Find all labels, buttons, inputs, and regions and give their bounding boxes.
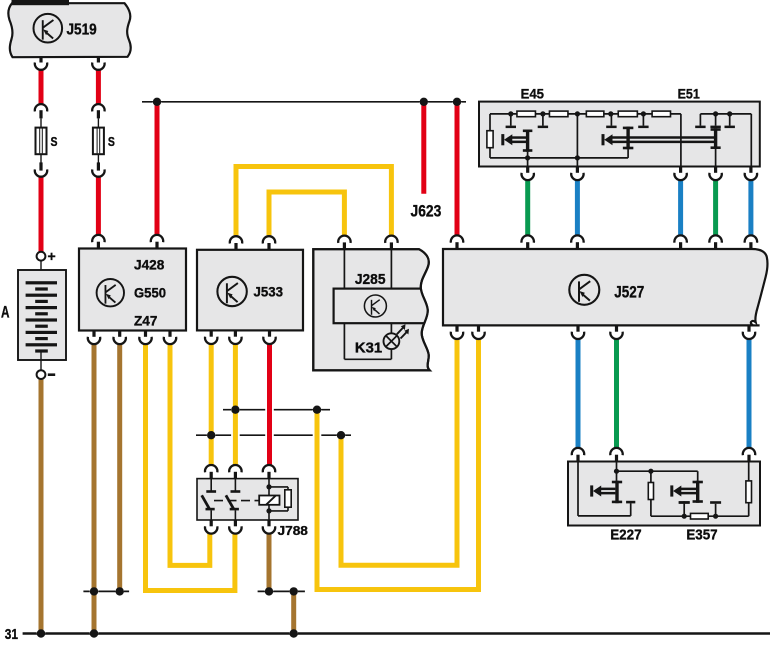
pin J285/2 — [385, 236, 397, 243]
switch E227 movable pivot — [615, 481, 618, 504]
wire yellow J533 top1 to J285 pin2 (outer loop) — [236, 167, 391, 236]
pin J788 top1 — [205, 465, 217, 472]
node E45 bus — [575, 111, 580, 116]
pin J527 top6 — [745, 235, 757, 242]
wire yellow branch row1 to J527 bot2 — [317, 339, 479, 590]
K symbol J428 — [97, 279, 124, 306]
J285 inner control-unit box — [334, 289, 430, 324]
node E45 bottom bus — [575, 155, 580, 160]
svg-text:J519: J519 — [67, 22, 98, 39]
wire E45 center drop to pin — [576, 114, 578, 167]
E227 fixed contact + wire to pin — [577, 462, 579, 516]
node rail-J527 — [453, 98, 461, 106]
resistor on bus — [618, 111, 637, 117]
node jog left a — [90, 587, 98, 595]
pin J527 top2 — [522, 235, 534, 242]
svg-text:J788: J788 — [278, 523, 308, 538]
pin E227/2 — [610, 448, 622, 455]
pin J533 bot1 — [205, 337, 217, 344]
pin J788 bot3 — [263, 526, 275, 533]
K symbol J533 — [217, 277, 246, 306]
wire red J519 pin2 to fuse S2 — [94, 70, 103, 105]
svg-text:31: 31 — [5, 627, 18, 640]
wire J285 internal right — [390, 249, 392, 288]
svg-text:J533: J533 — [254, 284, 284, 299]
pin E227/1 — [572, 448, 584, 455]
fuse S (right) — [92, 104, 104, 111]
wire E227 pin drop — [616, 462, 618, 481]
wire blue E45 pin2 to J527 — [573, 180, 582, 236]
node E357 bottom 2 — [713, 514, 718, 519]
node E45 bus — [508, 111, 513, 116]
pin J527 bot2 — [472, 332, 484, 339]
contact E45 fixed 1 — [510, 114, 512, 126]
battery A box — [18, 270, 66, 360]
svg-text:S: S — [108, 134, 115, 149]
wire right resistor lower lead — [748, 503, 750, 517]
pin J788 top3 — [263, 465, 275, 472]
control unit J533 (data bus diagnostic interface) box — [197, 250, 303, 331]
wire red rail to J527 top pin1 — [453, 102, 462, 236]
E45 internal rail left — [489, 114, 491, 131]
J519 top thick bar — [12, 0, 70, 5]
E357 fixed contacts — [683, 501, 685, 504]
node E45 bus — [608, 111, 613, 116]
switch E51 movable pivot B — [714, 128, 717, 149]
resistor E227 parallel — [648, 483, 653, 500]
wire battery - lead — [40, 352, 42, 371]
wire yellow J533 bot1 to J788 top1 — [207, 344, 216, 465]
wire right pin to resistor — [748, 462, 750, 481]
pin J527 bot5 — [743, 332, 755, 339]
svg-text:E45: E45 — [521, 86, 545, 102]
pin E45/2 — [571, 173, 583, 180]
pin E51/1 — [674, 173, 686, 180]
pin J533 top2 — [263, 236, 275, 243]
svg-text:E357: E357 — [686, 528, 717, 544]
svg-text:J285: J285 — [355, 272, 386, 288]
K31 lamp arrows — [397, 328, 403, 335]
wire red J519 pin1 to fuse S1 — [37, 70, 46, 105]
resistor on bus — [586, 111, 604, 117]
fuse S (left) — [35, 104, 47, 111]
pin J788 top2 — [229, 465, 241, 472]
node ground 3 — [290, 629, 298, 637]
wire E51 pivot A drop — [627, 149, 629, 158]
wire red fuse S2 to J428 pin1 — [94, 176, 103, 236]
wire : ground jog right (J788 brown) — [258, 590, 305, 592]
svg-text:J428: J428 — [134, 256, 164, 272]
node E51 bus — [713, 111, 718, 116]
switch E45 movable pivot — [526, 130, 529, 152]
relay J788 parallel resistor loop — [269, 486, 288, 488]
wire yellow J428 bot3 to J788 bot2 (outer U) — [146, 344, 235, 590]
contact E51 fixed 1 — [610, 114, 612, 126]
node J788 coil bottom — [266, 508, 271, 513]
resistor E357 series — [691, 513, 709, 519]
wire E357 bottom bus left — [651, 515, 691, 517]
wire brown J788 bot3 to jog — [265, 533, 274, 591]
node row2 right — [337, 431, 345, 439]
resistor J788 — [285, 490, 291, 507]
wire E45 rail lower — [489, 148, 491, 158]
switch arm E45 (with arrowhead) — [501, 134, 504, 145]
pin J533 bot2 — [229, 337, 241, 344]
wire brown battery - to ground 31 — [37, 379, 46, 634]
svg-text:S: S — [51, 134, 58, 149]
battery A terminal + — [37, 252, 46, 261]
wire brown jog to ground 31 — [289, 591, 298, 633]
svg-text:A: A — [1, 304, 10, 322]
wire : top plus rail (30a) — [142, 101, 466, 103]
svg-text:E51: E51 — [678, 86, 700, 102]
pin E357/1 — [743, 448, 755, 455]
svg-text:E227: E227 — [610, 528, 641, 544]
wire yellow J533 top2 to J285 pin1 (inner loop) — [269, 192, 344, 236]
node row1 left — [231, 406, 239, 414]
wire E51 pivot B to pin — [715, 149, 717, 167]
node ground 1 — [37, 629, 45, 637]
wire : branch row 2 (J533 pin1 to J527) — [196, 434, 351, 436]
resistor on bus — [549, 111, 568, 117]
resistor E45 left vertical — [487, 131, 493, 148]
indicator lamp K31 (cruise control warning lamp) — [384, 333, 400, 349]
pin J527 top3 — [571, 235, 583, 242]
pin J428 top1 — [92, 235, 104, 242]
wire blue J527 to E357 — [745, 339, 754, 448]
wire red rail to J623 — [419, 102, 428, 194]
wire E45 bottom bus — [490, 157, 628, 159]
wire E51 bus elbow to pin — [680, 114, 682, 167]
pin J519/1 — [35, 63, 47, 70]
wire E51 right elbow to pin — [750, 114, 752, 167]
wire E45 pivot to pin — [527, 152, 529, 167]
contact E51 right fixed 1 — [699, 114, 701, 126]
resistor on bus — [652, 111, 670, 117]
wire green J527 to E227 — [612, 339, 621, 448]
pin E45/1 — [521, 173, 533, 180]
pin J527 top5 — [709, 235, 721, 242]
wire E357 bottom bus right — [708, 515, 749, 517]
control unit J519 (onboard supply control unit, torn-edge box) — [8, 3, 130, 57]
contact E45 fixed 2 — [542, 114, 544, 126]
cruise control buttons E227 E357 box — [568, 462, 760, 526]
node rail-J428 — [153, 98, 161, 106]
battery A plates — [26, 281, 57, 284]
relay J788 winding — [259, 496, 279, 505]
pin J533 bot3 — [263, 337, 275, 344]
resistor E357 right vertical — [746, 481, 752, 503]
wire K31 loop right upper — [390, 323, 392, 333]
K symbol J519 — [34, 14, 63, 43]
svg-text:K31: K31 — [355, 340, 382, 357]
label - — [48, 373, 55, 376]
wire E227/E357 top bus — [617, 470, 698, 472]
wire yellow J533 bot2 to J788 top2 — [231, 344, 240, 465]
pin J428 top2 — [151, 235, 163, 242]
svg-text:J623: J623 — [411, 202, 442, 220]
node E51 bus — [727, 111, 732, 116]
node E227 bus — [614, 469, 619, 474]
wire E45 top bus — [490, 113, 681, 115]
pin J788 bot1 — [205, 526, 217, 533]
pin J428 bot3 — [139, 337, 151, 344]
switch J788 contact 1 — [210, 479, 212, 491]
wire K31 loop bottom — [344, 358, 391, 360]
node ground 2 — [90, 629, 98, 637]
resistor on bus — [517, 111, 536, 117]
node E45 bus — [641, 111, 646, 116]
node jog left b — [116, 587, 124, 595]
wire battery + lead — [40, 261, 42, 281]
pin J527 bot1 — [451, 332, 463, 339]
switch J788 contact 2 — [234, 479, 236, 491]
pin J527 top1 — [451, 235, 463, 242]
wire : ground jog left (J428 browns) — [83, 590, 129, 592]
wire : branch row 1 (J533 pin2 to J527) — [223, 409, 330, 411]
pin J428 bot4 — [164, 337, 176, 344]
control unit J285 (instrument cluster, torn-edge box) — [313, 249, 429, 370]
wire to resistor E227 — [650, 471, 652, 482]
node row2 left — [207, 431, 215, 439]
cruise control switches E45 E51 box — [479, 102, 760, 167]
battery A terminal - — [37, 370, 46, 379]
pin J527 top4 — [674, 235, 686, 242]
wire red J533 pin to J788 relay pin — [265, 344, 274, 465]
svg-text:J527: J527 — [614, 283, 644, 301]
node E45 bus — [540, 111, 545, 116]
wire brown J428 bot2 to jog — [115, 344, 124, 591]
wire green E51 pin2 to J527 — [711, 180, 720, 236]
wire yellow J428 bot4 to J788 bot1 (inner U) — [170, 344, 210, 565]
pin J533 top1 — [230, 236, 242, 243]
wire blue E51 pin3 to J527 — [747, 180, 756, 236]
wire K31 loop right lower — [390, 349, 392, 359]
relay J788 coil feed — [268, 479, 270, 496]
wire E357 pivot to bus — [697, 471, 699, 481]
switch E357 movable pivot — [696, 481, 699, 503]
node rail-J623 — [420, 98, 428, 106]
node jog right b — [290, 587, 298, 595]
K symbol J285 — [364, 295, 386, 317]
pin J519/2 — [92, 63, 104, 70]
pin J527 bot4 — [610, 332, 622, 339]
switch arm E227 — [590, 485, 593, 496]
control unit J428/G550/Z47 box — [79, 249, 186, 331]
pin E51/3 — [745, 173, 757, 180]
node E227 bus 2 — [648, 469, 653, 474]
pin J428 bot1 — [88, 337, 100, 344]
wire brown J428 bot1 to ground 31 — [90, 344, 99, 633]
node jog right a — [265, 587, 273, 595]
wire yellow branch row2 to J527 bot1 — [341, 339, 457, 565]
mechanical link (dashed) — [214, 500, 259, 502]
pin J285/1 — [338, 236, 350, 243]
E51 right bus — [700, 113, 751, 115]
switch arm E357 — [670, 485, 673, 496]
wire K31 loop left — [343, 323, 345, 359]
svg-text:+: + — [48, 248, 56, 264]
switch E51 movable pivot A — [626, 127, 629, 150]
pin E51/2 — [709, 173, 721, 180]
pin J788 bot2 — [229, 526, 241, 533]
control unit J527 (steering column electronics, torn-edge box) — [443, 249, 767, 325]
contact E51 right fixed 2 — [715, 114, 717, 126]
wire resistor to bottom bus — [650, 500, 652, 517]
wire J285 internal left — [343, 249, 345, 288]
wire red fuse S1 to battery + — [37, 176, 46, 253]
wire blue E51 pin1 to J527 — [676, 180, 685, 236]
node E45 bottom bus — [525, 155, 530, 160]
node E357 bottom — [682, 514, 687, 519]
pin J428 bot2 — [114, 337, 126, 344]
pin J527 bot3 — [572, 332, 584, 339]
wire blue J527 to E227 — [574, 339, 583, 448]
wire green E45 pin1 to J527 — [523, 180, 532, 236]
svg-text:G550: G550 — [134, 285, 166, 301]
ground bus 31 — [23, 632, 770, 635]
node row1 right — [313, 406, 321, 414]
switch arm E51 (long, with arrowhead) — [602, 134, 605, 145]
node J788 coil top — [266, 484, 271, 489]
K symbol J527 — [569, 275, 599, 305]
J527 bottom edge tail — [750, 324, 760, 326]
relay J788 box — [197, 479, 298, 520]
contact E51 fixed 2 — [642, 114, 644, 126]
contact E51 right fixed 3 — [729, 114, 731, 126]
svg-text:Z47: Z47 — [134, 312, 158, 328]
wire red rail to J428 pin2 — [153, 102, 162, 235]
